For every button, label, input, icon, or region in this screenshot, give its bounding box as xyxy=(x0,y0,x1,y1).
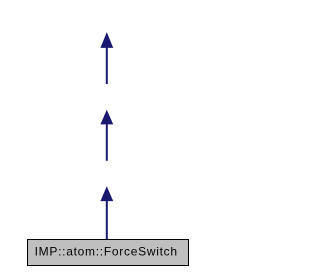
svg-text:IMP::atom::ForceSwitch: IMP::atom::ForceSwitch xyxy=(35,245,178,259)
inheritance arrow (top) xyxy=(100,32,113,84)
inheritance arrow (bottom) xyxy=(100,186,113,239)
class node IMP::atom::ForceSwitch xyxy=(28,240,189,266)
inheritance arrow (middle) xyxy=(100,110,113,161)
